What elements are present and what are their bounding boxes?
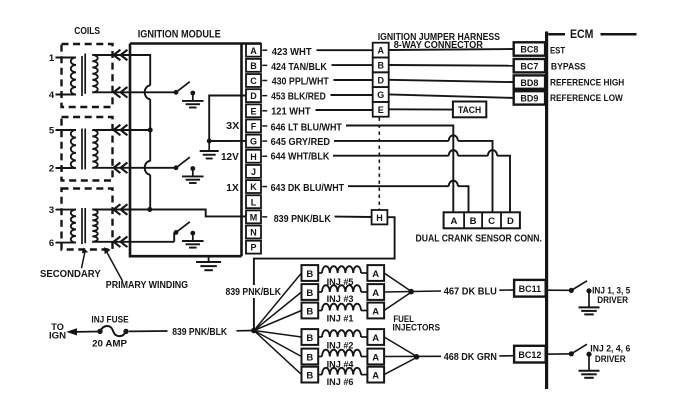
junction injector feed fan: [251, 328, 257, 334]
arrow to ignition: [66, 328, 77, 335]
switch S3 (coil 3 primary driver): [173, 232, 175, 241]
coil 1 right winding: [92, 55, 97, 92]
fan wires injectors 5,3,1 to junction: [384, 273, 411, 291]
injector #2 pin B: [302, 329, 319, 345]
svg-text:839 PNK/BLK: 839 PNK/BLK: [274, 214, 332, 225]
svg-text:468 DK GRN: 468 DK GRN: [444, 352, 497, 363]
svg-text:H: H: [376, 213, 383, 223]
ignition module pin strip A-P: [246, 44, 261, 254]
svg-text:3X: 3X: [226, 121, 240, 132]
coil 1 left winding: [71, 58, 76, 95]
svg-text:453 BLK/RED: 453 BLK/RED: [271, 92, 326, 103]
svg-text:G: G: [377, 90, 384, 100]
svg-text:D: D: [377, 75, 384, 85]
wire pin M to 8-way H: [335, 216, 372, 218]
coil 3 dashed case: [62, 189, 113, 250]
svg-text:643 DK BLU/WHT: 643 DK BLU/WHT: [271, 183, 345, 194]
wire BC11 to driver 1: [546, 289, 572, 291]
fan wire to injector 3: [254, 292, 302, 331]
coil 2 right winding: [92, 130, 97, 168]
svg-text:3: 3: [49, 205, 54, 216]
pointer line PRIMARY WINDING: [107, 252, 123, 282]
wire BC12 to driver 2: [546, 353, 572, 355]
svg-text:2: 2: [49, 164, 54, 175]
pin ticks: [262, 49, 267, 51]
svg-text:INJ #1: INJ #1: [327, 313, 355, 324]
injector #1 solenoid coil: [318, 310, 322, 312]
wire EST 8-way A to BC8: [389, 49, 514, 50]
svg-text:E: E: [378, 105, 384, 115]
coil 1 dashed case: [62, 44, 113, 107]
svg-text:INJ #3: INJ #3: [327, 294, 354, 305]
svg-text:N: N: [250, 228, 257, 238]
wire 646 (3X) to crank A: [346, 126, 453, 213]
svg-text:BC8: BC8: [520, 45, 538, 55]
ground ignition module case: [208, 256, 210, 261]
ECM terminal BD8: [514, 75, 545, 88]
wire 644 to crank D part2: [458, 155, 488, 157]
injector #6 solenoid coil: [318, 374, 322, 376]
wire pin B to 8-way: [332, 64, 373, 66]
injector #3 pin A: [367, 284, 384, 300]
svg-text:430 PPL/WHT: 430 PPL/WHT: [272, 77, 330, 88]
wire 645 to crank C part1: [334, 140, 449, 142]
coil 2 core: [81, 129, 83, 170]
coil 3 right winding: [92, 210, 97, 242]
svg-text:INJ #6: INJ #6: [327, 377, 354, 388]
wire 644 to crank D part1: [333, 155, 449, 157]
svg-text:A: A: [372, 333, 379, 344]
8-way connector pin H: [372, 210, 388, 224]
svg-text:REFERENCE HIGH: REFERENCE HIGH: [550, 78, 624, 89]
dual crank sensor connector A B C D: [444, 212, 520, 228]
svg-text:A: A: [450, 216, 457, 227]
svg-text:J: J: [251, 167, 256, 177]
wire 645 to crank C part2: [458, 141, 493, 212]
injector #5 pin A: [367, 265, 384, 281]
driver switch INJ 1,3,5: [569, 288, 574, 293]
hop 644 over crank A wire: [449, 150, 458, 156]
svg-text:B: B: [306, 306, 313, 317]
hop 643 over crank A wire: [449, 181, 458, 187]
svg-text:B: B: [306, 333, 313, 344]
ECM terminal BC11: [514, 280, 546, 297]
arrow chevrons top coil 2: [114, 125, 121, 136]
fan wires injectors 2,4,6 to junction: [384, 337, 417, 356]
wire coil 1 secondary bottom to module: [92, 91, 130, 93]
wire bus segment 2: [149, 175, 151, 210]
wire 468 to BC12: [499, 355, 514, 357]
ECM boundary line: [545, 32, 548, 390]
coil 3 core: [81, 208, 83, 244]
wire pin C to 8-way: [334, 79, 373, 81]
wire coil 3 terminal 3: [56, 209, 77, 211]
injector #6 pin A: [367, 367, 384, 383]
svg-text:D: D: [507, 216, 514, 227]
arrow chevrons bottom coil 1: [114, 87, 121, 98]
svg-text:839 PNK/BLK: 839 PNK/BLK: [172, 327, 227, 338]
wire REF HIGH 8-way D to BD8: [389, 80, 514, 82]
injector #4 pin A: [367, 349, 384, 365]
junction 468 DK GRN: [414, 354, 420, 360]
svg-text:REFERENCE LOW: REFERENCE LOW: [550, 93, 624, 104]
svg-text:INJ #4: INJ #4: [327, 359, 355, 370]
svg-text:424 TAN/BLK: 424 TAN/BLK: [271, 62, 327, 73]
bus hop over coil1 bottom wire: [145, 86, 151, 100]
svg-text:1X: 1X: [226, 183, 239, 194]
coil 2 left winding: [71, 130, 76, 168]
svg-text:BC11: BC11: [519, 284, 542, 294]
svg-text:D: D: [250, 91, 257, 101]
wire 8-way E to TACH: [389, 108, 453, 110]
svg-text:A: A: [372, 306, 379, 317]
wire 643 (1X) to crank B part1: [348, 185, 449, 187]
svg-text:A: A: [250, 46, 257, 56]
svg-text:E: E: [250, 106, 256, 116]
svg-text:INJ FUSE: INJ FUSE: [91, 314, 129, 325]
svg-text:C: C: [488, 216, 495, 227]
ignition module outline: [130, 44, 261, 257]
switch S2 (coil 2 primary driver): [130, 167, 176, 169]
svg-text:F: F: [251, 122, 257, 132]
8-way connector pins A B D G E: [373, 43, 389, 117]
ECM terminal BD9: [514, 91, 545, 104]
svg-text:A: A: [372, 288, 379, 299]
svg-text:B: B: [250, 61, 257, 71]
wire 644 to crank D part3: [497, 156, 510, 213]
wire REF LOW 8-way G to BD9: [389, 94, 514, 98]
svg-text:A: A: [372, 370, 379, 381]
injector #2 solenoid coil: [318, 336, 322, 338]
arrow chevrons bottom coil 2: [114, 163, 121, 174]
arrow chevrons top coil 3: [114, 204, 121, 215]
wire coil 3 secondary bottom to module: [92, 241, 174, 243]
wire to pin G internal: [209, 140, 246, 142]
svg-text:B: B: [306, 269, 313, 280]
svg-text:6: 6: [49, 238, 54, 249]
pointer line SECONDARY: [82, 250, 86, 268]
svg-text:1: 1: [49, 53, 55, 64]
svg-text:P: P: [250, 243, 256, 253]
arrow chevrons top coil 1: [114, 50, 121, 61]
junction 467 DK BLU: [408, 289, 414, 295]
svg-text:BD9: BD9: [520, 94, 538, 104]
wire pin D to 8-way: [331, 94, 373, 96]
injector #2 pin A: [367, 329, 384, 345]
injector #1 pin A: [367, 303, 384, 319]
svg-text:H: H: [250, 152, 257, 162]
svg-text:BC12: BC12: [518, 350, 541, 360]
fan wire to injector 4: [254, 331, 302, 357]
wire pin D internal: [209, 96, 246, 142]
svg-text:G: G: [250, 137, 257, 147]
wire pin A to 8-way: [317, 49, 373, 51]
svg-text:TACH: TACH: [458, 105, 481, 116]
ECM terminal BC12: [514, 346, 546, 363]
ground D-G net: [208, 141, 210, 151]
label ECM with dashes: [548, 33, 565, 36]
svg-text:A: A: [372, 269, 379, 280]
wire bus segment: [149, 99, 151, 161]
wire 643 to crank B part2: [458, 186, 469, 212]
wire coil3 top to pin M: [130, 210, 246, 217]
label background 839 vertical: [223, 285, 283, 298]
injector #3 pin B: [302, 284, 319, 300]
svg-text:B: B: [377, 60, 384, 70]
svg-text:645 GRY/RED: 645 GRY/RED: [271, 137, 330, 148]
driver switch INJ 2,4,6: [569, 351, 574, 356]
wire coil 1 terminal 1: [56, 57, 77, 59]
injector #5 solenoid coil: [318, 272, 322, 274]
bus hop over coil2 bottom wire: [145, 161, 151, 175]
TACH box: [453, 102, 486, 118]
svg-text:BC7: BC7: [520, 61, 538, 71]
svg-text:467 DK BLU: 467 DK BLU: [444, 286, 497, 297]
junction coil3 top: [147, 207, 152, 212]
coil 2 dashed case: [62, 117, 113, 181]
wire coil 3 terminal 6: [56, 242, 77, 244]
fan wire to injector 5: [254, 273, 302, 331]
svg-text:DRIVER: DRIVER: [595, 353, 626, 364]
dashed connector body line E-H: [378, 118, 380, 211]
svg-text:IGN: IGN: [49, 329, 66, 340]
svg-text:20 AMP: 20 AMP: [92, 338, 128, 349]
fan wire to injector 6: [254, 331, 302, 375]
arrow chevrons bottom coil 3: [114, 237, 121, 248]
fan wire to injector 2: [254, 331, 302, 338]
svg-text:K: K: [250, 182, 257, 192]
svg-text:121 WHT: 121 WHT: [271, 107, 311, 118]
wire 8-way H to injector feed: [254, 217, 395, 330]
svg-text:423 WHT: 423 WHT: [272, 47, 313, 58]
ECM terminal BC8: [514, 42, 545, 55]
wire BYPASS 8-way B to BC7: [389, 64, 514, 67]
injector #5 pin B: [302, 265, 319, 281]
wire label to fan junction: [237, 330, 254, 332]
svg-text:C: C: [250, 76, 257, 86]
svg-text:COILS: COILS: [74, 26, 100, 37]
svg-text:A: A: [372, 352, 379, 363]
svg-text:DRIVER: DRIVER: [597, 294, 628, 305]
wire coil 2 secondary bottom to module: [92, 167, 130, 169]
svg-text:A: A: [377, 46, 384, 56]
svg-text:EST: EST: [550, 46, 565, 57]
svg-text:SECONDARY: SECONDARY: [40, 269, 101, 280]
junction D-G net: [207, 139, 212, 144]
svg-text:L: L: [251, 197, 257, 207]
svg-text:B: B: [470, 216, 477, 227]
coil 3 left winding: [71, 210, 76, 243]
ECM terminal BC7: [514, 59, 545, 72]
svg-text:839 PNK/BLK: 839 PNK/BLK: [226, 287, 282, 298]
svg-text:INJ #2: INJ #2: [327, 341, 354, 352]
injector #4 solenoid coil: [318, 356, 322, 358]
svg-text:B: B: [306, 352, 313, 363]
svg-text:BD8: BD8: [520, 78, 538, 88]
wire coil 1 terminal 4: [56, 94, 77, 96]
junction coil2 top: [148, 128, 153, 133]
wire pin E to 8-way: [316, 109, 373, 111]
hop 644 over crank C wire: [488, 150, 497, 156]
svg-text:PRIMARY WINDING: PRIMARY WINDING: [106, 280, 188, 291]
wire coil 2 terminal 5: [56, 129, 77, 131]
wire 467 to BC11: [499, 289, 514, 291]
svg-text:4: 4: [49, 90, 55, 101]
injector #4 pin B: [302, 349, 319, 365]
svg-text:IGNITION MODULE: IGNITION MODULE: [138, 29, 221, 41]
svg-text:B: B: [306, 288, 313, 299]
svg-text:646 LT BLU/WHT: 646 LT BLU/WHT: [271, 123, 343, 134]
wire coil2 top into bus: [130, 129, 150, 131]
fan wire to injector 1: [254, 311, 302, 331]
injector #3 solenoid coil: [318, 291, 322, 293]
svg-text:M: M: [250, 212, 258, 222]
svg-text:DUAL CRANK SENSOR CONN.: DUAL CRANK SENSOR CONN.: [416, 233, 543, 244]
switch S1 (coil 1 primary driver): [130, 91, 176, 93]
svg-text:INJ 2, 4, 6: INJ 2, 4, 6: [590, 343, 630, 354]
injector #6 pin B: [302, 367, 319, 383]
svg-text:INJECTORS: INJECTORS: [393, 322, 441, 333]
svg-text:644 WHT/BLK: 644 WHT/BLK: [271, 151, 330, 162]
svg-text:ECM: ECM: [570, 27, 593, 41]
hop 645 over crank A wire: [449, 135, 458, 141]
svg-text:5: 5: [49, 126, 55, 137]
svg-text:12V: 12V: [221, 152, 239, 163]
wire fuse to label: [129, 330, 168, 332]
fuse INJ FUSE 20 AMP: [97, 329, 102, 334]
svg-text:INJ #5: INJ #5: [327, 277, 355, 288]
wire coil 3 secondary top to module: [92, 209, 130, 211]
wire coil 2 secondary top to module: [92, 129, 130, 131]
wire coil 2 terminal 2: [56, 167, 77, 169]
coil 1 core: [81, 56, 83, 96]
svg-text:B: B: [306, 370, 313, 381]
wire coil 1 secondary top to module: [92, 54, 130, 56]
svg-text:BYPASS: BYPASS: [551, 62, 586, 73]
node coil1 top corner / internal bus: [130, 55, 150, 86]
injector #1 pin B: [302, 303, 319, 319]
